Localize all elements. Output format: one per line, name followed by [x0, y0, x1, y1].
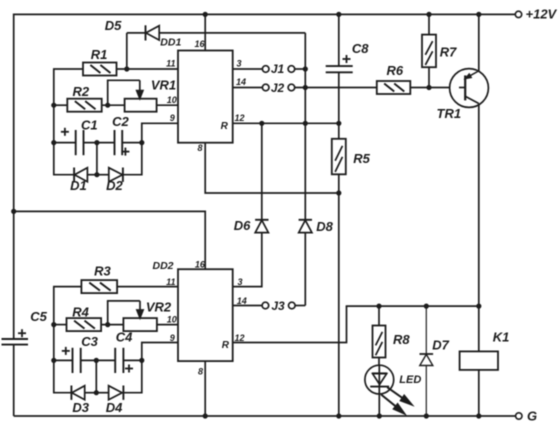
svg-text:C3: C3: [81, 334, 98, 349]
diode D7: [420, 306, 450, 416]
svg-text:J3: J3: [271, 299, 285, 313]
wire pin9 row DD2: [142, 343, 178, 361]
jumper J1: [262, 62, 305, 76]
svg-text:TR1: TR1: [437, 106, 462, 121]
wire DD2 pin12 to branch elbow: [233, 306, 347, 342]
svg-text:VR1: VR1: [151, 78, 176, 93]
pin 10 label DD2: [167, 314, 177, 324]
resistor R1: [83, 47, 117, 76]
node osc2-C3 junction: [51, 358, 56, 363]
jumper J2: [262, 81, 294, 95]
pin 16 label DD2: [195, 260, 206, 270]
node J1 junction: [303, 66, 308, 71]
svg-text:10: 10: [167, 95, 177, 105]
wire DD1 pin14 to J2: [233, 87, 263, 89]
svg-text:16: 16: [195, 260, 206, 270]
svg-text:G: G: [527, 409, 537, 424]
wire R2 row: [54, 104, 178, 106]
diode D3: [71, 386, 96, 416]
resistor R6: [377, 63, 411, 94]
svg-text:C8: C8: [352, 41, 369, 56]
node C8 column on G rail: [336, 413, 341, 418]
svg-text:C5: C5: [30, 309, 47, 324]
LED: [365, 365, 421, 416]
wire J column upper: [304, 33, 306, 220]
pin 14 label DD1: [236, 77, 246, 87]
capacitor C2: [112, 114, 129, 156]
wire J2 to R6: [295, 87, 377, 89]
potentiometer VR1: [107, 78, 176, 112]
diode D5: [105, 18, 160, 41]
wire R1 row: [53, 68, 178, 70]
node C4-pin9 junction: [139, 358, 144, 363]
svg-text:R6: R6: [386, 63, 403, 78]
wire R6 to base: [410, 87, 465, 89]
capacitor C1: [61, 117, 98, 155]
svg-text:C4: C4: [116, 330, 133, 345]
capacitor C5: [2, 309, 48, 345]
svg-text:R4: R4: [72, 305, 89, 320]
wire DD2 pin8: [204, 361, 206, 416]
wire C3 row left: [54, 359, 73, 361]
svg-text:DD1: DD1: [160, 37, 181, 49]
node C2-pin9 junction: [139, 140, 144, 145]
svg-text:11: 11: [166, 277, 175, 287]
resistor R3: [81, 263, 117, 293]
capacitor C8: [326, 14, 370, 72]
pin 8 label DD1: [197, 143, 202, 153]
svg-text:8: 8: [198, 367, 203, 377]
label R inside DD1: [221, 121, 229, 132]
node C3-C4 junction: [94, 358, 99, 363]
node osc-R2 junction: [51, 103, 56, 108]
wire C3-C4: [81, 359, 116, 361]
svg-text:D6: D6: [234, 218, 251, 233]
svg-text:3: 3: [237, 277, 242, 287]
svg-text:14: 14: [236, 77, 246, 87]
node K1 on G rail: [476, 413, 481, 418]
pin 10 label DD1: [167, 95, 177, 105]
svg-text:12: 12: [234, 113, 244, 123]
resistor R7: [422, 14, 457, 87]
node collector-branch junction: [476, 304, 481, 309]
svg-text:R: R: [221, 121, 229, 132]
svg-text:9: 9: [170, 113, 175, 123]
jumper J3: [262, 299, 305, 313]
pin 16 label DD1: [194, 39, 205, 49]
wire D6 to DD2 pin3: [233, 233, 262, 287]
svg-text:12: 12: [234, 333, 244, 343]
svg-text:R3: R3: [94, 263, 111, 278]
node pin12-D6 junction: [259, 121, 264, 126]
potentiometer VR2: [107, 300, 172, 332]
node D1-D2 junction: [94, 172, 99, 177]
node R5-pin8 junction: [336, 190, 341, 195]
svg-text:R2: R2: [72, 84, 89, 99]
wire D5 elbow: [126, 33, 128, 69]
node R1-D5 junction: [124, 66, 129, 71]
svg-text:D5: D5: [105, 18, 122, 33]
svg-text:14: 14: [237, 296, 247, 306]
wire C-D column 2: [95, 360, 97, 392]
node branch-R8 junction: [376, 304, 381, 309]
diode D8: [299, 219, 334, 234]
svg-text:D8: D8: [316, 219, 333, 234]
node J2 junction: [303, 85, 308, 90]
svg-text:D7: D7: [432, 338, 449, 353]
pin 11 label DD2: [166, 277, 175, 287]
svg-text:11: 11: [166, 58, 175, 68]
node pin12-C8 junction: [336, 121, 341, 126]
wire C8 column lower: [338, 193, 340, 416]
terminal +12V: [515, 7, 557, 22]
wire osc left column: [53, 69, 55, 175]
diode D1: [70, 168, 97, 194]
svg-text:K1: K1: [493, 329, 510, 344]
pin 9 label DD1: [170, 113, 175, 123]
svg-text:J1: J1: [271, 62, 285, 76]
svg-text:R8: R8: [393, 332, 410, 347]
svg-text:R1: R1: [91, 47, 108, 62]
node LED on G rail: [377, 413, 382, 418]
wire C-D column: [96, 143, 98, 175]
node branch-D7 junction: [424, 304, 429, 309]
wire D8 to J3: [304, 233, 306, 306]
pin 3 label DD2: [237, 277, 242, 287]
node D7 on G rail: [424, 413, 429, 418]
terminal G: [516, 409, 538, 424]
node osc2-R4 junction: [51, 322, 56, 327]
node pin12-J column junction: [303, 121, 308, 126]
wire DD1 pin12 row: [233, 122, 339, 124]
node R6-R7 junction: [426, 85, 431, 90]
wire left rail to DD2 pin16: [14, 211, 206, 269]
diode D2: [97, 168, 142, 194]
pin 14 label DD2: [237, 296, 247, 306]
wire TR1 emitter to +12V: [478, 14, 480, 71]
node TR1 collector on +12V rail: [476, 12, 481, 17]
IC DD2 box: [152, 260, 232, 361]
resistor R2: [67, 84, 101, 112]
svg-text:10: 10: [167, 314, 177, 324]
wire D2-pin9 elbow: [141, 143, 143, 176]
svg-text:D4: D4: [106, 400, 123, 415]
capacitor C4: [115, 330, 133, 374]
LED light arrow 1: [387, 387, 412, 405]
relay K1: [460, 329, 510, 370]
wire +12V top rail: [14, 13, 516, 15]
pin 12 label DD1: [234, 113, 244, 123]
capacitor C3: [62, 334, 99, 373]
node DD2 pin8 on G rail: [203, 413, 208, 418]
wire D row 2 left: [53, 392, 71, 394]
wire DD1 pin16: [204, 14, 206, 50]
resistor R5: [332, 123, 371, 193]
svg-text:C1: C1: [81, 117, 98, 132]
svg-text:D3: D3: [72, 400, 89, 415]
svg-text:R5: R5: [353, 151, 370, 166]
svg-text:8: 8: [197, 143, 202, 153]
wire G bottom rail: [14, 415, 516, 417]
diode D6: [234, 218, 269, 233]
wire D4-pin9 elbow 2: [141, 360, 143, 393]
svg-text:J2: J2: [271, 81, 285, 95]
svg-text:16: 16: [194, 39, 205, 49]
svg-text:D2: D2: [106, 178, 123, 193]
IC DD1 box: [160, 37, 232, 143]
wire C8 to pin12 row: [338, 72, 340, 123]
wire pin9 row: [142, 123, 178, 142]
wire DD1 pin3 to J1: [233, 68, 263, 70]
wire left rail lower: [13, 345, 15, 416]
svg-text:3: 3: [236, 58, 241, 68]
wire TR1 collector down: [478, 104, 480, 352]
wire osc2 left column: [53, 287, 55, 393]
wire R3 row: [53, 286, 178, 288]
wire C1-C2: [84, 142, 115, 144]
wire D5 to J column: [159, 32, 305, 34]
node R2-VR1 wiper junction: [105, 103, 110, 108]
node pin16 on +12V rail: [203, 12, 208, 17]
pin 11 label DD1: [166, 58, 175, 68]
node R7 on +12V rail: [426, 12, 431, 17]
svg-text:R7: R7: [440, 45, 457, 60]
node osc-C1 junction: [51, 140, 56, 145]
wire C4 to pin9 elbow: [123, 359, 141, 361]
svg-text:VR2: VR2: [146, 300, 172, 315]
wire branch row: [346, 305, 479, 307]
pin 8 label DD2: [198, 367, 203, 377]
resistor R4: [67, 305, 102, 332]
node D3-D4 junction: [94, 390, 99, 395]
wire K1 to G rail: [478, 370, 480, 416]
node rail2 on left rail: [11, 209, 16, 214]
wire C1 row left: [54, 142, 76, 144]
wire DD2 pin14 to J3: [233, 305, 262, 307]
node R4-VR2 wiper junction: [105, 322, 110, 327]
wire left rail upper: [13, 14, 15, 339]
svg-text:C2: C2: [112, 114, 129, 129]
diode D4: [96, 386, 142, 416]
pin 3 label DD1: [236, 58, 241, 68]
wire C2 to pin9 elbow: [122, 142, 142, 144]
svg-text:LED: LED: [399, 374, 421, 386]
wire D6 column upper: [261, 123, 263, 220]
pin 9 label DD2: [170, 333, 175, 343]
wire D row left: [53, 174, 74, 176]
svg-text:DD2: DD2: [152, 260, 173, 272]
resistor R8: [373, 306, 411, 365]
svg-text:9: 9: [170, 333, 175, 343]
wire DD1 pin8: [205, 143, 339, 193]
node C8 on +12V rail: [336, 12, 341, 17]
svg-text:+12V: +12V: [526, 7, 558, 22]
svg-text:R: R: [222, 340, 230, 351]
LED light arrow 2: [381, 395, 405, 414]
wire R4 row: [54, 324, 178, 326]
node C1-C2 junction: [94, 140, 99, 145]
label R inside DD2: [222, 340, 230, 351]
svg-text:D1: D1: [70, 178, 87, 193]
transistor TR1: [437, 69, 489, 122]
pin 12 label DD2: [234, 333, 244, 343]
